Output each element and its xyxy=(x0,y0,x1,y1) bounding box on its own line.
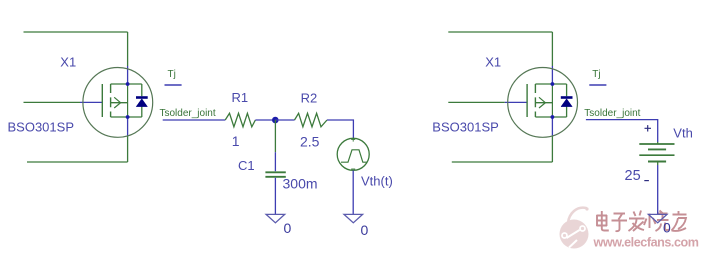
pin: source pin blue xyxy=(127,117,129,136)
子 xyxy=(612,214,628,221)
transistor X1 pin column (right) xyxy=(551,84,553,117)
svg-text:BSO301SP: BSO301SP xyxy=(8,120,75,135)
source Vth(t) plus mark xyxy=(351,138,355,142)
junction dot drain (right) xyxy=(551,82,555,86)
watermark chinese text 电子发烧友 xyxy=(597,211,687,232)
capacitor C1 plates xyxy=(265,171,285,173)
watermark logo xyxy=(560,207,589,248)
wire: box top horizontal (right) xyxy=(448,31,552,33)
wire: battery bottom to ground xyxy=(657,165,659,214)
transistor X1 body line xyxy=(111,102,128,104)
junction dot source (right) xyxy=(551,115,555,119)
svg-text:Tj: Tj xyxy=(168,69,176,80)
wire: Tsolder_joint to R1 xyxy=(163,119,226,121)
transistor X1 pin column xyxy=(127,84,129,117)
svg-text:0: 0 xyxy=(663,220,671,236)
minus mark (battery) xyxy=(644,180,649,182)
resistor R2 xyxy=(295,113,328,127)
transistor X1 body arrow (right) xyxy=(539,97,545,108)
pin: drain pin blue xyxy=(127,66,129,84)
body diode stubs (right) xyxy=(566,84,568,117)
svg-text:R2: R2 xyxy=(301,91,318,106)
svg-text:Tsolder_joint: Tsolder_joint xyxy=(584,108,640,119)
pin: drain pin blue (right) xyxy=(551,66,553,84)
wire: gate horizontal green (right) xyxy=(448,101,505,103)
pin: battery bottom stub green xyxy=(657,162,659,166)
wire: Tj stub (right) xyxy=(589,84,606,86)
transistor X1 body line (right) xyxy=(535,102,552,104)
junction dot drain xyxy=(126,82,130,86)
battery Vth plate 4 short xyxy=(648,161,666,163)
svg-text:0: 0 xyxy=(284,220,292,236)
wire: box top right vertical xyxy=(127,32,129,66)
svg-text:Tj: Tj xyxy=(592,69,600,80)
plus mark (battery) xyxy=(645,125,652,131)
wire: Tsolder_joint to battery (right) xyxy=(586,120,658,142)
body diode D cathode bar xyxy=(136,96,148,99)
transistor X1 source bar xyxy=(111,116,142,118)
pin: battery top stub green xyxy=(657,142,659,144)
battery Vth plate 3 long xyxy=(639,154,674,156)
node junction dot xyxy=(272,117,279,124)
junction dot source xyxy=(126,115,130,119)
wire: R2 to source top xyxy=(327,120,353,138)
pin: source pin blue (right) xyxy=(551,117,553,136)
wire: source bottom to ground xyxy=(352,171,354,215)
transistor X1 circle (right) xyxy=(508,68,578,138)
body diode triangle (right) xyxy=(561,99,572,107)
body diode D anode/cathode stubs xyxy=(141,84,143,117)
source Vth(t) circle xyxy=(337,138,369,170)
svg-text:2.5: 2.5 xyxy=(300,133,320,149)
svg-text:www.elecfans.com: www.elecfans.com xyxy=(593,236,699,250)
svg-text:BSO301SP: BSO301SP xyxy=(432,120,499,135)
battery Vth plate 1 long xyxy=(639,143,674,145)
body diode cathode bar (right) xyxy=(561,96,573,99)
svg-text:X1: X1 xyxy=(60,55,76,70)
battery Vth plate 2 short xyxy=(648,148,666,150)
wire: source vertical green (right) xyxy=(551,136,553,162)
body diode D triangle xyxy=(136,99,147,107)
svg-text:R1: R1 xyxy=(232,90,249,105)
svg-text:0: 0 xyxy=(361,222,369,238)
transistor X1 channel segments xyxy=(110,84,112,117)
source Vth(t) minus mark xyxy=(351,168,355,170)
resistor R1 xyxy=(225,113,255,127)
source Vth(t) pulse waveform xyxy=(341,150,367,162)
transistor X1 circle xyxy=(83,68,153,138)
svg-text:1: 1 xyxy=(232,133,240,149)
transistor X1 source bar (right) xyxy=(535,116,566,118)
烧 xyxy=(644,214,656,229)
wire: node to C1 green xyxy=(274,120,276,152)
svg-text:C1: C1 xyxy=(238,158,255,173)
友 xyxy=(673,211,687,215)
wire: C1 bottom to ground xyxy=(274,178,276,215)
svg-text:X1: X1 xyxy=(485,55,501,70)
svg-text:25: 25 xyxy=(625,168,641,184)
svg-text:Vth(t): Vth(t) xyxy=(361,174,393,189)
ground under battery xyxy=(648,214,667,222)
wire: box bottom horizontal xyxy=(27,161,128,163)
wire: Tj stub xyxy=(165,84,182,86)
pin: gate pin blue (right) xyxy=(505,101,527,103)
wire: box top horizontal xyxy=(24,31,128,33)
transistor X1 gate plate xyxy=(101,84,103,117)
电 xyxy=(597,216,608,226)
ground under Vth(t) xyxy=(344,214,363,222)
pin: gate pin blue xyxy=(80,101,102,103)
transistor X1 body arrow xyxy=(114,97,120,108)
svg-text:Tsolder_joint: Tsolder_joint xyxy=(160,108,216,119)
svg-text:300m: 300m xyxy=(283,176,318,192)
svg-text:Vth: Vth xyxy=(673,126,693,141)
pin: C1 top pin blue xyxy=(274,152,276,171)
wire: source vertical green xyxy=(127,136,129,162)
transistor X1 drain bar xyxy=(111,83,142,85)
发 xyxy=(629,211,645,219)
wire: node to R2 xyxy=(275,119,294,121)
wire: box bottom horizontal (right) xyxy=(452,161,553,163)
transistor X1 drain bar (right) xyxy=(535,83,566,85)
wire: R1 to node xyxy=(255,119,275,121)
transistor X1 gate plate (right) xyxy=(526,84,528,117)
wire: box top right vertical (right) xyxy=(551,32,553,66)
transistor X1 channel segments (right) xyxy=(534,84,536,117)
ground under C1 xyxy=(266,214,285,222)
wire: gate horizontal green xyxy=(24,101,81,103)
